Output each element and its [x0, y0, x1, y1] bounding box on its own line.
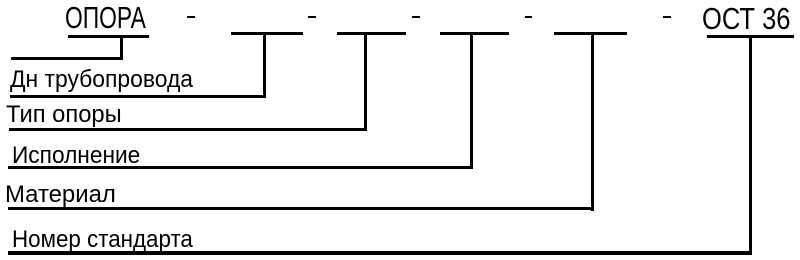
blank 1 underline	[231, 32, 303, 35]
leader horizontal from ОПОРА	[11, 57, 123, 60]
underline Исполнение	[8, 166, 473, 169]
blank 3 underline	[440, 32, 509, 35]
dash 2	[308, 16, 315, 19]
riser 4 (blank 4 to Материал)	[591, 32, 594, 211]
blank 4 underline	[554, 32, 627, 35]
underline Материал	[8, 207, 594, 210]
label Номер стандарта	[12, 228, 193, 252]
word ОПОРА	[65, 2, 146, 33]
dash 4	[525, 16, 532, 19]
blank 2 underline	[337, 32, 406, 35]
label Тип опоры	[6, 103, 122, 127]
underline under ОСТ 36	[707, 35, 794, 38]
underline Тип опоры	[9, 128, 367, 131]
label Исполнение	[12, 144, 140, 168]
riser from ОПОРА underline	[120, 35, 123, 60]
riser 2 (blank 2 to Тип опоры)	[364, 32, 367, 131]
underline Дн трубопровода	[10, 95, 266, 98]
riser 1 (blank 1 to Дн трубопровода)	[263, 32, 266, 98]
riser 3 (blank 3 to Исполнение)	[470, 32, 473, 170]
label Материал	[5, 183, 116, 207]
dash 3	[412, 16, 419, 19]
label Дн трубопровода	[10, 68, 193, 92]
dash 1	[187, 16, 194, 19]
dash 5	[663, 16, 670, 19]
underline under ОПОРА	[68, 35, 149, 38]
underline Номер стандарта	[8, 251, 752, 255]
riser 5 (ОСТ 36 to Номер стандарта)	[749, 35, 752, 255]
word ОСТ 36	[702, 3, 791, 34]
